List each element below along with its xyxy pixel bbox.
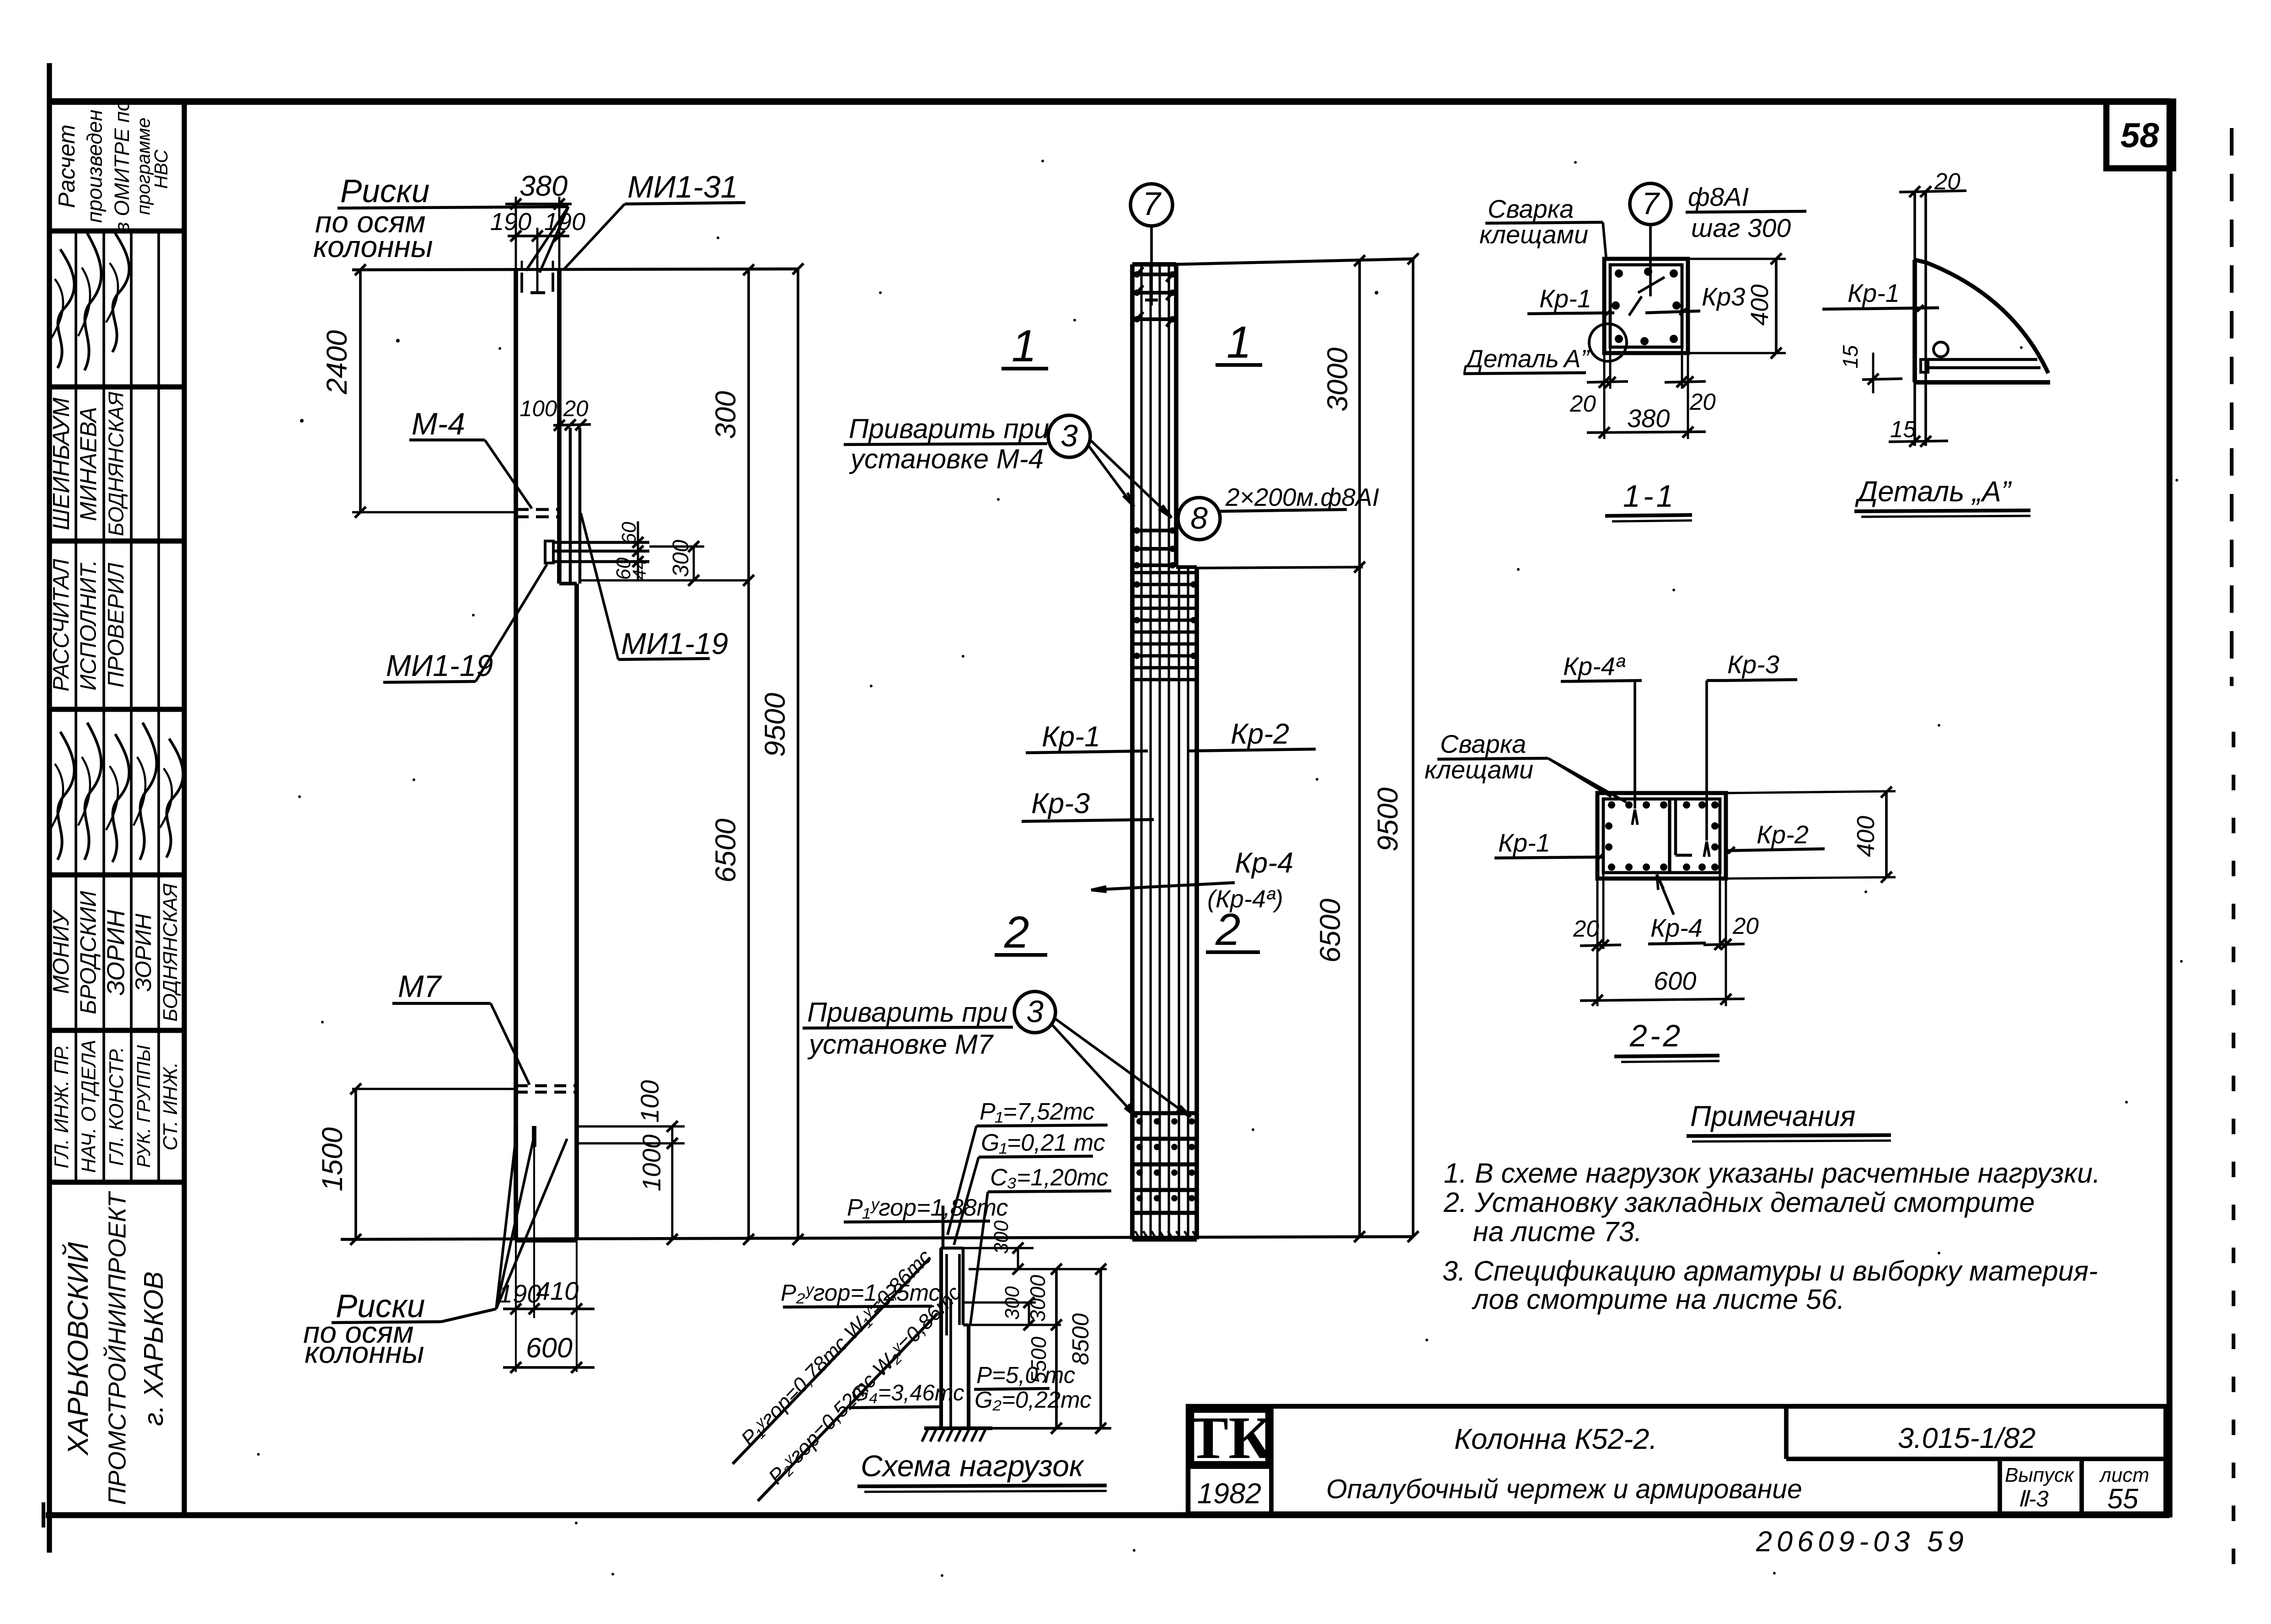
svg-text:8: 8 [1190,501,1208,536]
svg-text:G₁=0,21 тс: G₁=0,21 тс [981,1130,1105,1156]
svg-text:300: 300 [1001,1286,1023,1320]
left view: dim 1500 [354,1089,357,1239]
stamp strip column lines [75,231,77,387]
middle view: top stirrups [1134,273,1176,276]
left view: column axis mark top [536,228,539,293]
svg-text:3000: 3000 [1322,348,1354,412]
svg-text:3000: 3000 [1026,1275,1050,1322]
svg-text:ТК: ТК [1188,1404,1272,1471]
stamp strip horizontal dividers [49,228,184,233]
middle view: stirrups above step [1134,529,1176,532]
svg-text:Кр-1: Кр-1 [1539,284,1591,313]
stamp signatures bottom [58,732,75,860]
section 1-1: rebar dots [1615,269,1623,278]
svg-text:7: 7 [1642,186,1660,221]
scan edge artifact right [2230,128,2234,686]
common bottom level line [341,1237,1413,1239]
svg-text:6500: 6500 [710,819,742,883]
svg-text:2400: 2400 [321,330,353,395]
svg-text:колонны: колонны [305,1335,424,1369]
svg-text:колонны: колонны [313,230,433,263]
svg-text:44: 44 [629,559,650,580]
svg-text:1000: 1000 [637,1134,666,1191]
svg-text:ИСПОЛНИТ.: ИСПОЛНИТ. [76,560,101,691]
svg-text:100: 100 [635,1080,664,1123]
svg-text:300: 300 [990,1220,1012,1254]
svg-text:P₁=7,52тс: P₁=7,52тс [980,1099,1094,1125]
section 1-1: detail A circle and label [1589,324,1627,361]
svg-text:БРОДСКИИ: БРОДСКИИ [76,890,101,1014]
svg-text:МИНАЕВА: МИНАЕВА [75,407,101,521]
middle view: step level line to dim [1197,567,1363,568]
svg-text:установке М7: установке М7 [807,1029,994,1060]
svg-text:СТ. ИНЖ.: СТ. ИНЖ. [159,1062,182,1151]
section 1-1: concrete outline square [1604,259,1688,353]
left view: bottom axis riska marks [514,1126,518,1147]
svg-text:9500: 9500 [759,693,791,757]
detail A: weld circle [1934,342,1948,357]
svg-text:600: 600 [526,1332,573,1363]
section 2-2: dim 600 [1596,956,1599,1006]
title block right cells [1784,1406,1789,1459]
svg-text:Кр-3: Кр-3 [1031,788,1090,820]
svg-text:Сварка: Сварка [1488,194,1574,223]
svg-text:55: 55 [2107,1483,2139,1514]
svg-text:2-2: 2-2 [1629,1018,1683,1053]
middle view: axis circle 7 [1130,184,1173,226]
svg-text:60: 60 [618,522,640,544]
svg-text:Риски: Риски [340,173,429,209]
svg-text:Кр3: Кр3 [1702,282,1745,311]
section 1-1: dims 20 bottom [1603,355,1606,389]
load scheme: dim 300 second [963,1302,1036,1304]
svg-text:Ⅱ-3: Ⅱ-3 [2018,1487,2049,1511]
section 1-1: axis circle 7 [1630,183,1671,225]
svg-text:Кр-4ª: Кр-4ª [1563,652,1626,681]
svg-text:в ОМИТРЕ по: в ОМИТРЕ по [110,100,134,232]
left view: dim 6500 [747,580,750,1239]
svg-text:НВС: НВС [150,150,171,189]
detail A: corner plate shape [1915,260,2048,373]
section 2-2: stirrup divider [1668,799,1671,873]
svg-text:400: 400 [1852,816,1880,857]
section 1-1: dim 400 [1690,258,1786,260]
detail A: small bracket bottom left [1921,359,1928,372]
title block outer [1188,1406,2166,1514]
svg-text:Приварить при: Приварить при [849,413,1049,444]
svg-text:МИ1-31: МИ1-31 [627,170,738,204]
svg-text:ХАРЬКОВСКИЙ: ХАРЬКОВСКИЙ [62,1242,94,1456]
section 2-2: stirrup inner rect [1603,799,1720,873]
svg-text:ф8АI: ф8АI [1688,182,1749,212]
svg-text:3: 3 [1061,418,1078,453]
svg-text:Кр-2: Кр-2 [1757,820,1809,849]
svg-text:2: 2 [1004,907,1029,957]
scan specks [396,339,400,343]
load scheme: level line mid [969,1324,1061,1326]
svg-text:P₁ʸгор=1,88тс: P₁ʸгор=1,88тс [847,1195,1008,1221]
svg-text:20: 20 [1569,391,1596,417]
svg-text:2×200м.ф8АI: 2×200м.ф8АI [1225,483,1379,511]
left view: hatch marks below column top [520,273,523,293]
svg-text:3.015-1/82: 3.015-1/82 [1898,1422,2035,1454]
svg-text:ШЕЙНБАУМ: ШЕЙНБАУМ [48,397,74,531]
section 1-1: hook marks center [1638,277,1665,293]
svg-text:Кр-1: Кр-1 [1042,721,1100,753]
section 2-2: rebar dots [1608,801,1615,809]
middle view: callout circle 8 rebar 2x200 ф8АI [1178,498,1220,540]
title block TK cell [1269,1406,1274,1514]
load scheme: ground line with hatch [924,1426,992,1430]
middle view: longitudinal rebar upper [1140,266,1142,1238]
svg-text:2. Установку закладных детал: 2. Установку закладных деталей смотрите [1443,1187,2035,1218]
middle view: top level line [1176,259,1413,264]
svg-text:ЗОРИН: ЗОРИН [102,909,130,996]
svg-text:20: 20 [1732,913,1759,939]
svg-text:ГЛ. ИНЖ. ПР.: ГЛ. ИНЖ. ПР. [50,1044,73,1168]
svg-text:Сварка: Сварка [1440,729,1526,758]
middle view: dense stirrup zone below step [1134,571,1195,574]
load scheme: schema column [939,1248,943,1428]
left view: dim 190 190 [508,235,569,237]
load scheme: dim 300 top [940,1247,1034,1249]
svg-text:8500: 8500 [1067,1313,1093,1365]
svg-text:G₄=3,46тс: G₄=3,46тс [852,1381,964,1405]
svg-text:P₂ʸгор=1,25тс: P₂ʸгор=1,25тс [781,1280,940,1306]
svg-text:НАЧ. ОТДЕЛА: НАЧ. ОТДЕЛА [77,1040,100,1173]
svg-text:произведен: произведен [83,110,107,223]
svg-text:15: 15 [1838,345,1862,369]
svg-text:15: 15 [1890,416,1916,442]
load scheme: diagonal load line 2 [758,1313,937,1501]
svg-text:на листе 73.: на листе 73. [1473,1216,1642,1247]
svg-text:г. ХАРЬКОВ: г. ХАРЬКОВ [139,1271,169,1426]
svg-text:Колонна К52-2.: Колонна К52-2. [1454,1423,1657,1455]
svg-text:400: 400 [1746,284,1773,326]
section 1-1: dim 380 [1603,389,1606,439]
svg-text:М7: М7 [398,969,442,1004]
load scheme: level line top [969,1268,1107,1270]
svg-text:1982: 1982 [1197,1478,1261,1510]
svg-text:Схема нагрузок: Схема нагрузок [861,1449,1085,1483]
middle view: longitudinal rebar lower [1178,569,1180,1238]
left view: dim 2400 [359,270,362,512]
middle view: bottom edge hatch [1135,1231,1140,1238]
svg-text:МОНИУ: МОНИУ [49,909,74,994]
svg-text:20: 20 [1573,916,1599,942]
svg-text:3: 3 [1026,994,1044,1029]
left view: dim 380 top [515,197,517,270]
svg-text:5500: 5500 [1027,1336,1050,1383]
svg-text:9500: 9500 [1372,788,1404,852]
section 2-2: concrete outline rect [1597,793,1726,879]
svg-text:410: 410 [536,1276,578,1305]
section 2-2: dims 20 bottom [1596,880,1599,956]
svg-text:20609-03 59: 20609-03 59 [1756,1526,1968,1558]
svg-text:ПРОМСТРОЙНИИПРОЕКТ: ПРОМСТРОЙНИИПРОЕКТ [103,1190,131,1505]
left view: МИ1-19 angle verticals on right face [569,428,572,584]
load scheme: vertical load arrow line [942,1206,945,1248]
svg-text:G₂=0,22тс: G₂=0,22тс [975,1387,1092,1413]
svg-text:7: 7 [1142,186,1162,222]
svg-text:3. Спецификацию арматуры и в: 3. Спецификацию арматуры и выборку матер… [1442,1255,2098,1286]
middle view: column outline [1130,264,1135,1239]
stamp signatures top [58,249,75,368]
svg-text:Опалубочный чертеж и армиро: Опалубочный чертеж и армирование [1326,1474,1802,1504]
middle view: bottom stirrups [1134,1111,1195,1115]
svg-text:Кр-1: Кр-1 [1848,279,1900,307]
section 2-2: dim 400 right [1728,791,1896,793]
svg-text:шаг 300: шаг 300 [1691,214,1791,243]
middle view: dim 9500 (middle) [1412,259,1414,1237]
svg-text:20: 20 [563,397,589,421]
svg-text:190: 190 [544,208,585,236]
svg-text:300: 300 [710,391,742,439]
left view: top level line [352,269,798,270]
svg-text:Расчет: Расчет [54,124,80,208]
left view: dims 100 and 1000 right of column [577,1126,685,1128]
detail A: Кр-1 bar verticals [1913,191,1916,446]
svg-text:300: 300 [669,540,693,577]
stamp strip outer [182,102,187,1515]
section 1-1: stirrup Кр inner square [1610,265,1682,347]
svg-text:Деталь „А”: Деталь „А” [1855,476,2012,508]
svg-text:1500: 1500 [316,1127,348,1191]
left view: dim 300 small near plate [649,546,704,548]
sheet number box 58 [2106,102,2173,168]
svg-text:ЗОРИН: ЗОРИН [131,913,156,992]
left view: leaders from Риски to column top [526,207,568,271]
svg-text:МИ1-19: МИ1-19 [621,627,728,660]
svg-text:100: 100 [520,397,557,421]
sheet border frame [47,63,52,1553]
load scheme: dim 3000 [1055,1269,1058,1428]
load scheme: bottom line [992,1427,1111,1430]
left view: leaders to bottom riska marks [496,1130,517,1309]
svg-text:ГЛ. КОНСТР.: ГЛ. КОНСТР. [105,1047,128,1166]
load scheme: leaders from load texts [948,1126,976,1235]
load scheme: dim 8500 [1099,1269,1102,1428]
svg-text:Деталь А”: Деталь А” [1463,344,1591,373]
svg-text:Примечания: Примечания [1690,1100,1855,1132]
svg-text:190: 190 [490,208,531,236]
svg-text:58: 58 [2121,116,2159,155]
svg-text:Кр-2: Кр-2 [1231,718,1289,750]
svg-text:600: 600 [1654,966,1696,995]
svg-text:6500: 6500 [1314,899,1346,963]
left view: dim 9500 [797,269,799,1239]
svg-text:1: 1 [1227,317,1252,367]
svg-text:Кр-4: Кр-4 [1650,913,1703,942]
left view: column outline [514,270,518,1240]
svg-text:C₃=1,20тс: C₃=1,20тс [990,1164,1108,1191]
middle view: dim 3000 [1358,259,1361,1237]
svg-text:Кр-1: Кр-1 [1498,828,1550,857]
left view: embedded plate М-4 dashed [352,511,515,514]
svg-text:лов смотрите на листе 56.: лов смотрите на листе 56. [1472,1284,1845,1315]
svg-text:P=5,0 тс: P=5,0 тс [976,1362,1075,1388]
left view: dim 300 upper right [747,270,750,580]
svg-text:Кр-3: Кр-3 [1727,650,1779,679]
svg-text:БОДНЯНСКАЯ: БОДНЯНСКАЯ [159,883,182,1022]
svg-text:М-4: М-4 [412,407,465,441]
svg-text:380: 380 [520,170,568,202]
svg-text:РАССЧИТАЛ: РАССЧИТАЛ [49,559,74,691]
left view: embedded plate М7 dashed [352,1088,515,1090]
svg-text:Приварить при: Приварить при [807,997,1007,1028]
svg-text:установке М-4: установке М-4 [849,444,1044,474]
svg-text:БОДНЯНСКАЯ: БОДНЯНСКАЯ [104,391,128,536]
svg-text:380: 380 [1627,404,1670,433]
svg-text:1-1: 1-1 [1623,479,1676,514]
load scheme: diagonal load line 1 [733,1258,930,1464]
svg-text:Выпуск: Выпуск [2005,1464,2075,1486]
svg-text:РУК. ГРУППЫ: РУК. ГРУППЫ [133,1045,154,1168]
svg-text:(Кр-4ª): (Кр-4ª) [1207,885,1283,913]
svg-text:Кр-4: Кр-4 [1235,847,1293,879]
svg-text:1: 1 [1012,321,1037,371]
svg-text:1. В схеме нагрузок указаны: 1. В схеме нагрузок указаны расчетные на… [1444,1158,2100,1189]
svg-text:ПРОВЕРИЛ: ПРОВЕРИЛ [104,563,129,687]
left view: dim 60 44 60 of plate [637,521,639,581]
svg-text:20: 20 [1689,389,1716,415]
left view: МИ1-19 horizontal plate [545,541,553,563]
